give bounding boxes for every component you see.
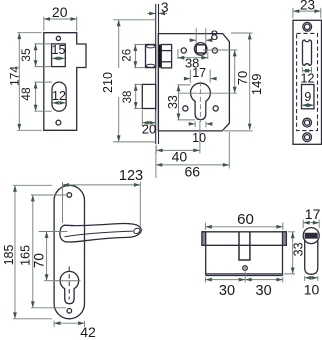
dim 185 ext lines: [13, 185, 52, 318]
latch guide line 2: [161, 61, 171, 63]
svg-text:8: 8: [211, 27, 219, 43]
cylinder left cap: [202, 232, 206, 246]
dim 17 end view arrows: [303, 222, 319, 224]
svg-text:35: 35: [19, 48, 33, 62]
dim 38 spindle line: [178, 49, 208, 59]
front plate screw top inner: [304, 24, 310, 30]
latch bolt top end ellipse: [146, 45, 155, 48]
svg-text:42: 42: [80, 324, 96, 340]
svg-text:30: 30: [219, 283, 235, 299]
front plate screw bottom outer: [303, 133, 312, 142]
dim 48 line: [35, 82, 37, 111]
latch guide line 1: [161, 50, 171, 52]
dim 210 line lower: [118, 97, 120, 142]
svg-text:48: 48: [19, 87, 33, 101]
dim 33 lock line: [178, 85, 180, 120]
spindle square 8mm: [196, 45, 206, 53]
dim 3 arrows at faceplate strip: [147, 13, 155, 15]
front faceplate outline: [293, 20, 322, 144]
svg-text:10: 10: [304, 282, 320, 298]
dim 15 arrows: [52, 57, 65, 59]
cylinder hole centre line horizontal: [179, 92, 238, 94]
svg-text:12: 12: [52, 89, 66, 103]
dim 26 line: [134, 45, 136, 68]
dim 38 deadbolt ext lines: [134, 84, 142, 108]
dim 70 lock line: [234, 50, 236, 93]
svg-text:33: 33: [292, 242, 306, 256]
dim 17 arrows: [185, 78, 190, 80]
svg-text:9: 9: [304, 90, 311, 104]
dim 23 line: [293, 10, 321, 12]
cylinder end view fin: [305, 240, 318, 274]
svg-text:17: 17: [305, 206, 321, 222]
latch bolt bottom end ellipse: [146, 64, 155, 67]
dim 20 strike ext lines: [44, 17, 77, 31]
handle centre ext line: [39, 231, 68, 233]
svg-text:70: 70: [235, 71, 250, 85]
cylinder bottom double line: [206, 274, 283, 276]
lock body outline: [158, 34, 229, 131]
dim 10 end view arrows: [305, 277, 318, 279]
svg-text:174: 174: [7, 66, 21, 86]
dim 23 ext lines: [293, 8, 321, 18]
dim 210 line upper: [118, 20, 120, 68]
dim 10 end view ext lines: [305, 276, 318, 281]
dim 30 left line: [206, 279, 245, 281]
latch bolt (side): [146, 45, 156, 68]
svg-text:23: 23: [300, 0, 315, 12]
dim 8 arrows: [191, 39, 196, 41]
dim 30/30 ext lines: [205, 272, 282, 283]
lock case hole right: [213, 106, 218, 111]
dim 40 ext lines: [156, 121, 200, 154]
svg-text:12: 12: [301, 71, 315, 85]
fixing hole left: [181, 48, 186, 53]
cylinder body top: [206, 244, 283, 246]
dim 20 strike line: [44, 18, 77, 20]
dim 123 line: [63, 184, 140, 186]
svg-text:10: 10: [192, 131, 206, 145]
svg-text:60: 60: [237, 211, 254, 228]
svg-text:20: 20: [142, 122, 156, 137]
dim 12 arrows: [53, 102, 66, 104]
dim 30 right line: [245, 279, 282, 281]
dim 42 ext lines: [54, 321, 84, 327]
dim 33 cyl line: [292, 232, 294, 274]
latch guide box: [161, 45, 171, 68]
dim 40 line: [156, 149, 199, 151]
dim 66 ext lines: [156, 132, 229, 178]
cylinder body sides: [206, 245, 283, 275]
dim 149 line: [249, 33, 251, 130]
dim 20 deadbolt line: [143, 122, 156, 124]
dim 48 ext lines: [34, 82, 51, 111]
dim 149 ext lines: [224, 33, 253, 131]
dim 35 ext lines: [34, 44, 51, 67]
handle lever tip highlight: [133, 227, 141, 235]
dim 35 line: [35, 44, 37, 66]
svg-text:40: 40: [172, 148, 188, 164]
lock faceplate strip (edge view): [156, 4, 159, 144]
handle euro cutout centreline vertical (dashed): [68, 267, 70, 300]
handle backplate screw bottom: [67, 309, 72, 314]
dim 174 ext lines: [17, 33, 42, 131]
svg-text:30: 30: [256, 283, 272, 299]
dim 123 ext lines: [63, 182, 141, 227]
fixing hole right: [212, 48, 217, 53]
dim 12 front ext lines: [303, 67, 312, 73]
dim 165 ext lines: [31, 195, 66, 308]
cylinder end view cam slot: [305, 233, 317, 238]
dim 165 line: [32, 195, 34, 307]
strike plate screw hole bottom: [56, 120, 61, 125]
dim 60 ext lines: [205, 223, 282, 231]
front plate screw mid outer: [303, 118, 312, 127]
strike plate latch cutout (15): [52, 44, 66, 67]
handle backplate screw top: [67, 193, 72, 198]
dim 70 handle line: [46, 232, 48, 281]
cylinder top line: [202, 231, 287, 233]
dim 12 front arrows: [303, 70, 312, 72]
svg-text:26: 26: [122, 49, 134, 62]
dim 33 cyl ext lines: [284, 232, 295, 274]
svg-text:149: 149: [249, 73, 264, 95]
dim 9 front arrows: [302, 104, 314, 106]
front plate screw top outer: [303, 22, 312, 31]
cylinder right cap: [283, 232, 287, 246]
cylinder cam: [239, 232, 250, 260]
dim 10 lock arrows: [190, 123, 195, 125]
latch bolt through faceplate (solid): [159, 45, 162, 68]
spindle follower circle: [194, 43, 207, 56]
svg-text:3: 3: [161, 0, 169, 15]
front faceplate hidden edge (dashed): [297, 33, 318, 130]
svg-text:165: 165: [18, 245, 32, 266]
handle euro cutout centreline horizontal: [56, 280, 81, 282]
handle euro cutout (keyhole profile): [60, 271, 79, 303]
dim 66 line: [156, 164, 229, 166]
dim 26 ext lines: [134, 45, 145, 68]
strike plate S1 outline: [44, 33, 86, 131]
front plate screw mid inner: [305, 120, 310, 125]
svg-text:17: 17: [192, 66, 206, 80]
front deadbolt cutout (9): [302, 85, 315, 109]
cylinder end view circle: [303, 228, 319, 244]
svg-text:33: 33: [166, 95, 180, 109]
dim 10 lock ext lines: [195, 121, 206, 127]
dim 60 line: [206, 226, 283, 228]
strike plate deadbolt slot (12): [52, 82, 66, 111]
deadbolt (retracted): [142, 84, 155, 108]
dim 42 line: [54, 322, 84, 324]
dim 17 ext lines: [190, 70, 210, 83]
cylinder centre ext line: [44, 280, 57, 282]
svg-text:185: 185: [2, 245, 16, 266]
dim 33 lock ext lines: [177, 85, 195, 120]
dim 38 deadbolt line: [135, 85, 137, 109]
svg-text:70: 70: [31, 253, 46, 268]
dim 185 line: [14, 186, 16, 319]
cylinder fixing screw: [243, 266, 248, 271]
svg-text:66: 66: [185, 164, 201, 180]
dim 8 ext lines: [196, 28, 206, 43]
strike plate screw hole top: [56, 36, 60, 40]
dim 210 ext lines: [113, 20, 155, 142]
front plate screw bottom inner: [305, 135, 310, 140]
dim 70 lock ext: [203, 49, 238, 51]
svg-text:38: 38: [122, 91, 134, 104]
svg-text:20: 20: [52, 4, 68, 20]
dim 20 deadbolt ext lines: [142, 110, 155, 126]
cylinder hole centre line vertical dashed: [199, 82, 201, 123]
handle lever: [60, 224, 141, 243]
handle lever fold line: [65, 231, 134, 237]
dim 174 line: [18, 33, 20, 130]
lock case hole left: [183, 106, 188, 111]
svg-text:15: 15: [52, 43, 66, 57]
svg-text:210: 210: [101, 72, 115, 93]
handle backplate: [54, 185, 84, 318]
euro cylinder hole (keyhole profile): [191, 83, 211, 120]
svg-text:123: 123: [119, 168, 143, 184]
front latch cutout (spool): [303, 40, 312, 65]
dim 17 end view ext lines: [303, 220, 319, 229]
